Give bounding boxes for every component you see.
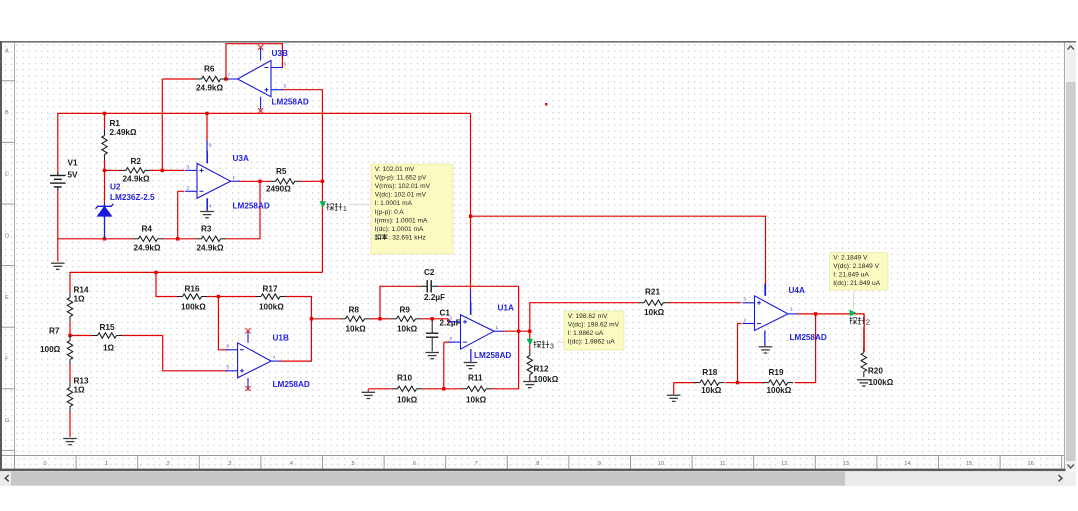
svg-text:V(dc): 198.62 mV: V(dc): 198.62 mV	[568, 321, 620, 328]
C1 top lead	[431, 320, 433, 334]
wire R21 to U4A + input	[669, 302, 742, 304]
junction	[310, 317, 313, 320]
svg-text:G: G	[5, 418, 9, 424]
svg-text:24.9kΩ: 24.9kΩ	[196, 84, 223, 93]
probe 3 (green arrow)	[527, 339, 534, 346]
svg-text:1: 1	[790, 307, 793, 312]
wire node to R11	[444, 388, 462, 390]
svg-text:8: 8	[536, 461, 539, 467]
svg-text:I: 1.9862 uA: I: 1.9862 uA	[568, 330, 604, 337]
svg-text:2.2µF: 2.2µF	[424, 293, 445, 302]
svg-text:I: 21.849 uA: I: 21.849 uA	[833, 272, 869, 279]
resistor R6	[196, 76, 226, 81]
resistor R21	[639, 300, 669, 305]
svg-text:R10: R10	[397, 374, 412, 383]
wire U1A V+ pin	[470, 290, 472, 315]
svg-text:R18: R18	[702, 368, 717, 377]
X mark U3B V- unconnected	[258, 108, 263, 113]
junction	[469, 215, 472, 218]
workspace left border	[0, 41, 2, 471]
wire supply bus down right side	[470, 113, 472, 290]
resistor R17	[256, 294, 286, 299]
wire output node up to R21	[530, 303, 639, 332]
svg-text:R11: R11	[468, 374, 483, 383]
wire - input down to R10/R11 node	[443, 342, 445, 389]
op-amp U3B LM258AD	[228, 48, 283, 109]
svg-text:LM258AD: LM258AD	[273, 380, 310, 389]
junction	[517, 330, 520, 333]
wire R4/R3 node up to U3A - input	[178, 191, 185, 239]
workspace top border	[0, 41, 1076, 43]
wire supply branch to U4A V+	[471, 216, 766, 284]
svg-text:7: 7	[273, 355, 276, 360]
svg-text:D: D	[5, 233, 9, 239]
canvas right edge line	[1064, 43, 1066, 469]
resistor R8	[340, 316, 370, 321]
probe 2 (green arrow)	[850, 310, 857, 317]
junction	[176, 237, 179, 240]
wire R18 ground stem	[673, 383, 675, 395]
resistor R12	[527, 350, 532, 380]
svg-text:6: 6	[227, 344, 230, 349]
svg-text:10kΩ: 10kΩ	[397, 325, 418, 334]
svg-text:13: 13	[843, 461, 849, 467]
wire to R4	[105, 238, 134, 240]
probe label 3	[532, 340, 557, 351]
svg-text:3: 3	[550, 341, 554, 350]
op-amp U1B LM258AD	[226, 330, 281, 390]
wire R2 to U3A + input	[151, 169, 185, 171]
svg-text:100kΩ: 100kΩ	[181, 303, 206, 312]
wire R16 to node	[207, 296, 218, 298]
svg-text:R6: R6	[204, 65, 215, 74]
svg-text:V(dc): 2.1849 V: V(dc): 2.1849 V	[833, 263, 879, 270]
X mark U1B V+ unconnected	[245, 328, 250, 333]
wire node to R17	[218, 296, 255, 298]
wire V1- to bottom bus	[58, 190, 105, 239]
svg-text:6: 6	[284, 62, 287, 67]
wire bottom bus to ground stem	[57, 239, 59, 262]
svg-text:3: 3	[450, 316, 453, 321]
measurement box probe 3	[564, 311, 624, 350]
wire R4 to R3	[163, 238, 196, 240]
svg-text:8: 8	[209, 143, 212, 148]
svg-text:2: 2	[167, 461, 170, 467]
wire R11 up to output node	[492, 331, 519, 389]
ground below R13	[63, 439, 77, 445]
wire U4A - input down to R18/R19 node	[738, 324, 742, 383]
svg-text:R12: R12	[534, 365, 549, 374]
svg-text:3: 3	[187, 164, 190, 169]
op-amp U3A LM258AD	[185, 151, 240, 211]
measurement box probe 2	[830, 253, 889, 291]
svg-text:7: 7	[228, 73, 231, 78]
svg-text:100kΩ: 100kΩ	[534, 375, 559, 384]
junction	[378, 317, 381, 320]
svg-text:4: 4	[290, 461, 293, 467]
svg-text:R1: R1	[110, 119, 121, 128]
svg-text:2: 2	[866, 318, 870, 327]
probe label 1	[325, 202, 350, 213]
svg-text:24.9kΩ: 24.9kΩ	[197, 244, 224, 253]
wire U3A ground pin	[206, 198, 208, 210]
svg-text:5: 5	[227, 365, 230, 370]
svg-text:R9: R9	[400, 306, 411, 315]
wire C2 right down to U1A output node	[439, 286, 519, 331]
ground below V1 loop	[51, 263, 65, 269]
wire ground to R18	[674, 382, 696, 384]
resistor R13	[67, 382, 72, 412]
wire bus branch down to R16	[156, 272, 177, 296]
wire U3A output to R5	[240, 180, 271, 182]
svg-text:F: F	[5, 357, 9, 363]
wire C2 node to R9	[380, 318, 391, 320]
svg-text:R20: R20	[868, 367, 883, 376]
svg-text:100kΩ: 100kΩ	[259, 303, 284, 312]
junction	[205, 112, 208, 115]
junction	[103, 237, 106, 240]
svg-text:U1A: U1A	[498, 303, 514, 312]
svg-text:10: 10	[658, 461, 664, 467]
junction	[258, 180, 261, 183]
V1 top stub	[57, 173, 59, 176]
wire R13 to ground	[69, 412, 71, 437]
svg-text:0: 0	[43, 461, 46, 467]
svg-text:V1: V1	[68, 159, 78, 168]
X mark U1B V- unconnected	[245, 386, 250, 391]
wire U4A ground pin	[764, 331, 766, 347]
svg-text:1Ω: 1Ω	[74, 295, 86, 304]
svg-text:5V: 5V	[68, 171, 79, 180]
svg-text:100Ω: 100Ω	[40, 345, 61, 354]
wire R7 to R13	[69, 365, 71, 382]
resistor R20	[861, 347, 866, 377]
svg-text:3: 3	[228, 461, 231, 467]
probe leader lines	[330, 204, 854, 342]
svg-text:16: 16	[1027, 461, 1033, 467]
svg-text:10kΩ: 10kΩ	[346, 325, 367, 334]
svg-text:12: 12	[781, 461, 787, 467]
probe label 2	[848, 316, 873, 327]
svg-text:LM258AD: LM258AD	[790, 333, 827, 342]
wire R8 to C2 node	[370, 318, 380, 320]
svg-text:7: 7	[475, 461, 478, 467]
wire U4A V+ pin	[765, 284, 767, 296]
op-amp U1A LM258AD	[449, 302, 504, 361]
resistor R10	[392, 386, 422, 391]
junction	[224, 77, 227, 80]
wire U1A output	[503, 330, 530, 332]
junction	[442, 387, 445, 390]
probe 1 (green arrow)	[320, 201, 327, 208]
wire to U1A - input	[444, 341, 452, 343]
svg-text:R15: R15	[100, 323, 115, 332]
X mark U3B V+ unconnected	[258, 45, 263, 50]
svg-text:24.9kΩ: 24.9kΩ	[123, 175, 150, 184]
capacitor C2 2.2uF	[427, 280, 431, 292]
svg-text:10kΩ: 10kΩ	[466, 396, 487, 405]
svg-text:LM258AD: LM258AD	[233, 202, 270, 211]
svg-text:1: 1	[105, 461, 108, 467]
svg-text:R19: R19	[769, 368, 784, 377]
svg-text:10kΩ: 10kΩ	[397, 396, 418, 405]
wire R19 up to U4A output	[795, 314, 816, 383]
svg-text:6: 6	[413, 461, 416, 467]
wire R10 to node	[422, 388, 444, 390]
svg-text:R14: R14	[74, 286, 89, 295]
svg-text:C2: C2	[424, 268, 435, 277]
zener reference U2 LM236Z-2.5	[96, 204, 114, 239]
svg-text:I(p-p): 0 A: I(p-p): 0 A	[375, 209, 405, 216]
left ruler strip	[2, 43, 15, 469]
svg-text:9: 9	[598, 461, 601, 467]
wire R18 to node	[726, 382, 738, 384]
horizontal scrollbar	[0, 471, 1065, 486]
wire corner to R20 redrawn over label chip	[863, 314, 865, 352]
wire feedback node to R8	[311, 318, 340, 320]
svg-text:C: C	[5, 172, 9, 178]
wire R15 to U1B + input	[122, 336, 228, 371]
wire node down to U2 zener	[104, 170, 106, 203]
svg-text:R3: R3	[201, 225, 212, 234]
svg-text:V: 102.01 mV: V: 102.01 mV	[375, 166, 415, 173]
svg-text:1: 1	[233, 175, 236, 180]
svg-text:I(dc): 21.849 uA: I(dc): 21.849 uA	[833, 280, 881, 287]
svg-text:R16: R16	[185, 284, 200, 293]
svg-text:4: 4	[209, 204, 212, 209]
svg-text:U4A: U4A	[789, 286, 805, 295]
junction	[814, 312, 817, 315]
ground U3A V- pin	[200, 212, 214, 218]
svg-text:R13: R13	[74, 377, 89, 386]
wire R6 right to U3B output	[226, 78, 229, 80]
resistor R5	[270, 179, 300, 184]
svg-text:2: 2	[744, 317, 747, 322]
svg-text:R2: R2	[131, 157, 142, 166]
workspace bottom border	[0, 469, 1066, 472]
wire bus to R1 top	[104, 113, 106, 130]
svg-text:2: 2	[187, 185, 190, 190]
battery V1 5V	[50, 176, 66, 187]
svg-text:14: 14	[904, 461, 910, 467]
wire ground to R10	[368, 388, 392, 390]
junction	[217, 295, 220, 298]
wire R14 to R7 node	[69, 322, 71, 336]
svg-text:15: 15	[966, 461, 972, 467]
wire node to R2	[105, 169, 121, 171]
resistor R15	[92, 333, 122, 338]
V1 bottom stub	[57, 187, 59, 191]
svg-text:R8: R8	[349, 306, 360, 315]
resistor R14	[67, 292, 72, 322]
ground U4A V- pin	[759, 347, 773, 353]
svg-text:1: 1	[343, 204, 347, 213]
svg-text:I(dc): 1.9862 uA: I(dc): 1.9862 uA	[568, 339, 616, 346]
junction	[154, 271, 157, 274]
svg-text:1Ω: 1Ω	[74, 386, 86, 395]
svg-text:I(dc): 1.0001 mA: I(dc): 1.0001 mA	[375, 226, 424, 233]
resistor R4	[133, 236, 163, 241]
svg-text:2.49kΩ: 2.49kΩ	[110, 128, 137, 137]
svg-text:E: E	[5, 295, 9, 301]
wire V1+ to top supply bus	[58, 113, 471, 173]
wire R12 to ground	[529, 380, 531, 382]
svg-text:11: 11	[720, 461, 726, 467]
wire output node down to R3 right	[259, 181, 261, 239]
svg-text:LM236Z-2.5: LM236Z-2.5	[110, 193, 155, 202]
svg-text:2: 2	[450, 336, 453, 341]
svg-text:U1B: U1B	[273, 334, 289, 343]
svg-text:I(rms): 1.0001 mA: I(rms): 1.0001 mA	[375, 217, 428, 224]
svg-text:V(rms): 102.01 mV: V(rms): 102.01 mV	[375, 183, 431, 190]
wire node down to R12	[529, 331, 531, 350]
resistor R16	[177, 294, 207, 299]
resistor R3	[196, 236, 226, 241]
ground at R18	[667, 395, 681, 401]
wire U1A ground pin	[470, 349, 472, 362]
measurement box probe 1	[371, 164, 453, 254]
svg-text:10kΩ: 10kΩ	[644, 308, 665, 317]
C2 right lead	[432, 285, 439, 287]
junction	[321, 180, 324, 183]
svg-text:I: 1.0001 mA: I: 1.0001 mA	[375, 200, 413, 207]
svg-text:V(dc): 102.01 mV: V(dc): 102.01 mV	[375, 192, 427, 199]
junction	[431, 317, 434, 320]
junction	[736, 381, 739, 384]
svg-text:R4: R4	[142, 225, 153, 234]
wire C1 node to U1A + input	[432, 319, 452, 322]
wire node to R15	[70, 335, 92, 337]
resistor R9	[391, 316, 421, 321]
ground below R20	[857, 380, 871, 386]
svg-text:B: B	[5, 110, 9, 116]
C1 bottom lead to ground	[431, 337, 433, 351]
wire node down to U1B - input	[218, 297, 227, 350]
wire lower-left bus to R14 top	[70, 272, 322, 292]
capacitor C1 2.2uF	[426, 333, 438, 337]
svg-text:LM258AD: LM258AD	[474, 351, 511, 360]
svg-text:R7: R7	[49, 327, 60, 336]
resistor R1 2.49k	[102, 130, 107, 160]
resistor R11	[462, 386, 492, 391]
wire R9 to C1 node	[421, 318, 432, 320]
svg-text:: 32.691 kHz: : 32.691 kHz	[389, 235, 426, 242]
vertical scrollbar	[1066, 43, 1077, 470]
wire R6 left down to R2 node	[161, 79, 163, 170]
wire U3B feedback loop	[226, 44, 282, 79]
resistor R18	[695, 380, 725, 385]
svg-text:1: 1	[496, 325, 499, 330]
svg-text:5: 5	[284, 84, 287, 89]
junction	[528, 330, 531, 333]
resistor R19	[763, 380, 793, 385]
wire to R6 left	[162, 78, 196, 80]
wire U4A output to R20	[797, 314, 864, 352]
wire bus to U3A V+ pin	[206, 113, 208, 140]
wire node to R19	[738, 382, 765, 384]
ground at R10	[362, 392, 376, 398]
svg-text:10kΩ: 10kΩ	[701, 386, 722, 395]
svg-text:U3B: U3B	[272, 49, 288, 58]
ground below R12	[523, 382, 537, 388]
node	[529, 302, 531, 304]
svg-text:A: A	[5, 49, 9, 55]
wire U3A V+ pin	[206, 140, 208, 163]
svg-text:V: 2.1849 V: V: 2.1849 V	[833, 254, 868, 261]
svg-text:R21: R21	[645, 287, 660, 296]
svg-text:100kΩ: 100kΩ	[869, 378, 894, 387]
C2 left lead	[420, 285, 427, 287]
junction	[68, 334, 71, 337]
stray net dot	[545, 103, 547, 105]
wire R3 to feedback corner	[226, 238, 260, 240]
svg-text:1Ω: 1Ω	[103, 344, 115, 353]
wire R10 ground stem	[367, 389, 369, 392]
junction	[103, 112, 106, 115]
svg-text:U2: U2	[110, 183, 121, 192]
op-amp U4A LM258AD	[743, 283, 798, 343]
resistor R2	[121, 168, 151, 173]
svg-text:100kΩ: 100kΩ	[767, 386, 792, 395]
ground below C1	[425, 353, 439, 359]
svg-text:5: 5	[351, 461, 354, 467]
svg-text:24.9kΩ: 24.9kΩ	[134, 244, 161, 253]
svg-text:V: 198.62 mV: V: 198.62 mV	[568, 313, 608, 320]
junction	[103, 169, 106, 172]
wire U3B + input down to R5 node and lower bus	[282, 90, 322, 273]
wire R17 to U1B output feedback	[280, 297, 311, 362]
resistor R7	[67, 335, 72, 365]
bottom ruler strip	[2, 456, 1065, 469]
svg-text:U3A: U3A	[233, 154, 249, 163]
svg-text:R17: R17	[263, 284, 278, 293]
svg-text:LM258AD: LM258AD	[272, 98, 309, 107]
wire R5 to probe node	[300, 180, 322, 182]
wire R1 bottom to node	[104, 160, 106, 170]
wire up to C2 left	[380, 286, 420, 319]
ground U1A V- pin	[464, 363, 478, 369]
junction	[161, 169, 164, 172]
svg-text:R5: R5	[276, 167, 287, 176]
svg-text:2490Ω: 2490Ω	[266, 185, 291, 194]
svg-text:V(p-p): 11.652 pV: V(p-p): 11.652 pV	[375, 174, 427, 181]
svg-text:3: 3	[744, 297, 747, 302]
